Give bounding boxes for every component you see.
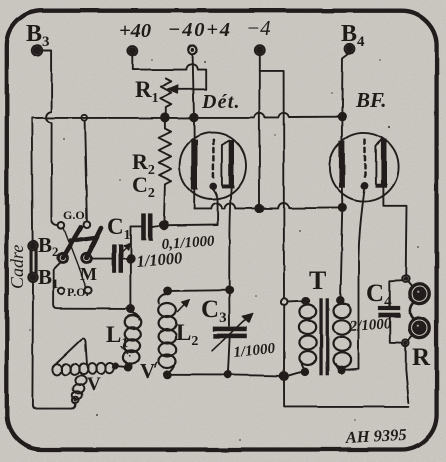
svg-text:V: V (87, 374, 101, 395)
wire Det grid to bus node (193, 118, 195, 140)
wire V coil to L1 bottom (118, 365, 125, 368)
C1 leader arrow (122, 248, 127, 253)
wire C3 bottom lead (228, 338, 230, 371)
switch thin link (64, 228, 87, 287)
tube Det (triode envelope) (180, 133, 246, 199)
svg-text:AH 9395: AH 9395 (344, 425, 407, 447)
node -4 on filament line (256, 205, 263, 212)
inductor V vertical loops (72, 376, 86, 399)
BF cathode dot (361, 182, 369, 190)
wire +40 feed to R1 wiper (133, 55, 206, 89)
BF grid bar (339, 140, 345, 188)
svg-text:−40+4: −40+4 (168, 19, 232, 41)
capacitor 1/1000 plates (112, 244, 117, 272)
svg-text:T: T (309, 266, 326, 295)
wire T primary link (288, 300, 303, 303)
wire B3 lead down to switch GO contact (43, 51, 58, 226)
scan specks (29, 59, 419, 441)
node L2 top (164, 287, 171, 294)
wire node to BF secondary top (340, 208, 342, 297)
wire M pivot to cap (91, 258, 112, 260)
transformer T core (319, 298, 322, 376)
wire -4 branch to transformer primary top (259, 71, 284, 298)
Det filament dashed (212, 140, 215, 180)
inductor V horizontal loops (52, 363, 114, 375)
wire C1 right to grid node (153, 225, 164, 227)
svg-text:P.O.: P.O. (67, 285, 89, 299)
wire C1 left down to M node (131, 227, 141, 255)
node bus-GO junction (81, 115, 87, 121)
wire phones bottom down (406, 345, 409, 403)
resistor R2 grid leak (159, 121, 171, 222)
transformer T primary winding (299, 304, 316, 369)
V coil link dot (113, 364, 118, 369)
node L2 plate junction (226, 287, 233, 294)
terminal B4 (345, 44, 355, 54)
capacitor C3 variable plates (213, 327, 247, 332)
resistor R1 (160, 79, 171, 115)
terminal B2 (28, 241, 37, 250)
Det plate (222, 141, 229, 185)
wire bottom right bus (284, 380, 409, 407)
jack R bottom (410, 318, 430, 338)
inductor L2 (158, 294, 176, 374)
svg-text:R: R (412, 344, 431, 371)
switch PO right contact (85, 287, 92, 294)
node C3 bottom (225, 372, 232, 379)
V coil bottom terminal (73, 397, 79, 403)
svg-text:BF.: BF. (355, 88, 387, 112)
wire BF cathode down to secondary bottom (345, 189, 365, 370)
capacitor C4 branch (390, 280, 403, 342)
R1 wiper arrowhead (167, 85, 178, 94)
T primary bottom terminal (280, 372, 288, 380)
svg-text:+40: +40 (119, 20, 151, 42)
svg-text:Cadre: Cadre (7, 245, 27, 289)
svg-text:2/1000: 2/1000 (348, 316, 392, 335)
BF filament dashed (364, 140, 367, 180)
node M-cap junction (127, 255, 135, 263)
transformer T primary top terminal (281, 298, 288, 305)
terminal B3 (32, 45, 42, 55)
Det grid bar (191, 140, 197, 190)
switch pivot M side (81, 254, 90, 263)
wire -40+4 down to bus (193, 55, 194, 115)
wire C3 top lead (228, 294, 230, 326)
inductor L1 (123, 312, 141, 367)
triode BF envelope (329, 132, 398, 201)
wire B4 down to bus end (342, 53, 349, 113)
wire cap to node (123, 258, 127, 260)
terminal B1 (28, 273, 37, 282)
svg-text:−4: −4 (246, 16, 271, 40)
wire pivot to L1 top (53, 262, 127, 309)
switch GO right contact (84, 221, 91, 228)
L2 coupling arrow (178, 303, 187, 312)
V coil former triangle (53, 339, 87, 368)
switch GO left contact (58, 223, 65, 230)
terminal -40+4 (188, 46, 197, 55)
wire bus left end down to B2 (31, 118, 34, 241)
switch PO left contact (58, 288, 65, 295)
terminal +40 (128, 46, 138, 56)
wire plate node to L2 top (171, 289, 229, 292)
transformer T secondary winding (333, 303, 351, 370)
capacitor C1 plates (141, 213, 146, 240)
cadre frame antenna bars (30, 249, 33, 274)
svg-text:G.O.: G.O. (63, 208, 88, 222)
wire filament line (194, 203, 342, 208)
terminal -4 (254, 45, 264, 55)
node T primary bottom (302, 369, 309, 376)
phone terminal top (402, 275, 409, 282)
svg-text:1/1000: 1/1000 (136, 248, 183, 271)
switch coupling bar (71, 237, 97, 241)
node T secondary top (337, 297, 344, 304)
V label tick (155, 363, 157, 368)
node Det grid on bus (190, 114, 198, 122)
node L1 bottom (125, 364, 132, 371)
phone terminal bottom (402, 339, 409, 346)
wire terminal-jack links (408, 281, 413, 341)
wire junction down to GO right contact (85, 121, 87, 221)
wire Det plate down to L2 node (229, 188, 231, 287)
wire -4 down to filament line (258, 56, 260, 205)
wire B1 to bottom bus to V coil (32, 282, 75, 409)
L1 leader dash (121, 347, 131, 357)
node T secondary bottom (338, 367, 345, 374)
node T primary top (302, 297, 309, 304)
switch arm 2 (86, 228, 101, 259)
node R2 bottom / grid return (160, 221, 168, 229)
node B4 bus end (338, 113, 345, 120)
switch arm 1 (62, 227, 81, 259)
jack connecting arc (410, 302, 414, 319)
node L1 top (127, 306, 134, 313)
Det cathode dot (209, 182, 217, 190)
node L2 bottom (164, 371, 171, 378)
wire Det cathode to grid-leak node (167, 189, 218, 225)
svg-text:V: V (140, 359, 155, 383)
C3 variable arrow (212, 319, 246, 351)
BF plate (376, 139, 382, 184)
wire Det grid bottom to filament line (193, 190, 195, 209)
switch pivot B2 side (58, 254, 67, 263)
jack R top (410, 284, 430, 304)
wire L2 bottom to T primary bottom (167, 375, 280, 376)
wire node down to L1 top (130, 263, 132, 306)
wire BF plate to phones (383, 188, 406, 276)
wire T left vertical (283, 305, 285, 372)
node R1/R2 on bus (161, 114, 169, 122)
wire BF grid bottom to node (341, 188, 343, 204)
svg-text:M: M (80, 264, 97, 284)
node filament line BF grid (339, 204, 346, 211)
wire B4 node down to BF grid (341, 117, 343, 140)
wire bus (-40+4 bus) (32, 113, 342, 118)
capacitor C4 plates (378, 306, 401, 310)
wire T primary bottom to left terminal (288, 372, 302, 376)
svg-text:Dét.: Dét. (201, 91, 241, 113)
